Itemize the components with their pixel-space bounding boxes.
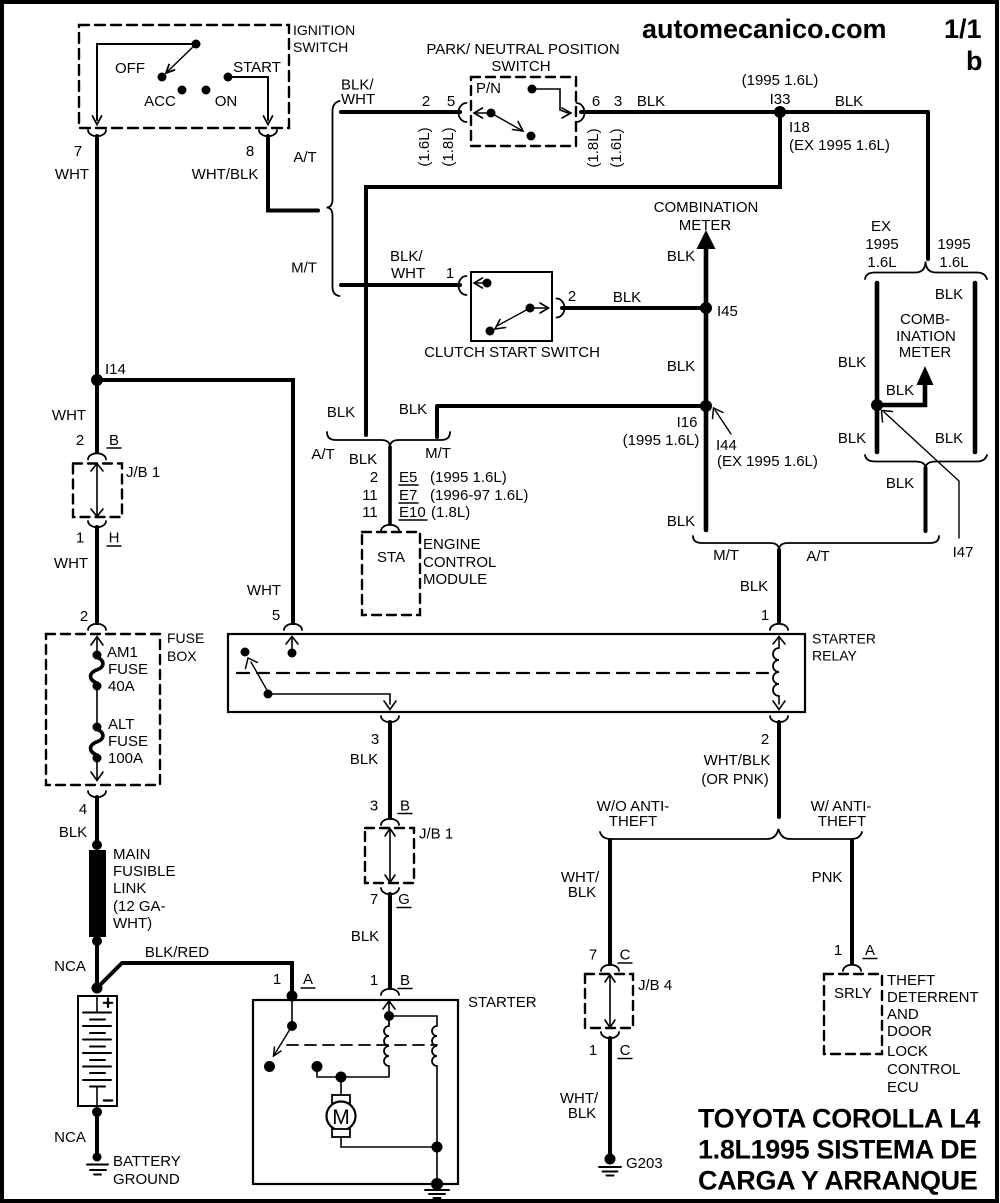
svg-text:WHT/BLK: WHT/BLK (192, 166, 259, 183)
svg-text:CONTROL: CONTROL (423, 554, 496, 571)
starter motor contact (312, 1061, 390, 1077)
svg-text:2: 2 (370, 469, 378, 486)
svg-text:BLK: BLK (568, 1105, 596, 1122)
svg-text:J/B 1: J/B 1 (419, 826, 453, 843)
combination meter arrow right (917, 366, 934, 385)
split brace anti-theft (600, 829, 862, 839)
node battery negative (92, 1107, 102, 1117)
svg-text:CARGA Y ARRANQUE: CARGA Y ARRANQUE (698, 1166, 977, 1196)
svg-text:BLK: BLK (886, 475, 914, 492)
svg-text:BLK: BLK (838, 354, 866, 371)
main fusible link (89, 840, 176, 946)
fuse AM1 40A (91, 644, 148, 695)
wire clutch to I45 (562, 306, 706, 310)
starter pinB internal arrow (383, 1001, 395, 1021)
connector pin 8 ignition (259, 130, 277, 136)
svg-text:BLK: BLK (886, 382, 914, 399)
svg-text:5: 5 (447, 93, 455, 110)
node I16 (623, 400, 712, 449)
starter box (253, 994, 537, 1184)
svg-text:WHT/BLK: WHT/BLK (704, 752, 771, 769)
svg-text:100A: 100A (108, 750, 143, 767)
svg-text:INATION: INATION (896, 328, 956, 345)
clutch switch arm (486, 304, 535, 336)
svg-text:1: 1 (589, 1042, 597, 1059)
ignition switch box (79, 22, 355, 128)
node I45 (700, 302, 738, 320)
svg-text:RELAY: RELAY (812, 648, 858, 664)
svg-text:WHT: WHT (341, 91, 375, 108)
svg-text:EX: EX (871, 218, 891, 235)
combination meter arrow center (697, 230, 716, 249)
svg-text:ENGINE: ENGINE (423, 536, 481, 553)
wire W/ anti-theft branch (850, 841, 854, 963)
svg-text:(1995 1.6L): (1995 1.6L) (430, 469, 507, 486)
svg-text:SWITCH: SWITCH (491, 58, 550, 75)
svg-text:1/1: 1/1 (944, 14, 982, 44)
svg-text:AND: AND (887, 1006, 919, 1023)
svg-text:ACC: ACC (144, 93, 176, 110)
junction block J/B 1 lower (365, 826, 453, 884)
svg-text:LOCK: LOCK (887, 1043, 928, 1060)
starter motor M (327, 1077, 356, 1147)
P/N internal pin6 contact and wire (528, 85, 572, 119)
svg-text:2: 2 (76, 432, 84, 449)
connector J/B1 lower entry (381, 819, 399, 825)
svg-text:DETERRENT: DETERRENT (887, 989, 979, 1006)
svg-text:(EX 1995 1.6L): (EX 1995 1.6L) (789, 137, 890, 154)
svg-text:BLK: BLK (59, 824, 87, 841)
svg-text:E10: E10 (399, 504, 426, 521)
wire fusible link to battery junction (95, 941, 99, 988)
svg-text:A: A (303, 971, 313, 988)
svg-text:ON: ON (215, 93, 238, 110)
ignition switch rotor arm (166, 44, 196, 73)
svg-text:3: 3 (614, 93, 622, 110)
svg-text:ECU: ECU (887, 1079, 919, 1096)
node I33 (742, 72, 819, 118)
svg-text:WHT: WHT (391, 265, 425, 282)
svg-text:PNK: PNK (812, 869, 843, 886)
svg-text:3: 3 (370, 798, 378, 815)
W/ ANTI-THEFT label (811, 798, 872, 830)
wire P/N to I33 and right column (581, 110, 928, 114)
svg-text:I44: I44 (716, 437, 737, 454)
svg-text:GROUND: GROUND (113, 1171, 180, 1188)
svg-text:(1995 1.6L): (1995 1.6L) (623, 432, 700, 449)
wire I14 branch to starter relay pin5 (97, 380, 293, 623)
ignition OFF contact (158, 73, 167, 82)
ignition START contact (224, 73, 233, 82)
svg-text:I47: I47 (953, 544, 974, 561)
ignition ON contact (202, 86, 211, 95)
combination meter label right (896, 311, 956, 361)
svg-text:I33: I33 (770, 91, 791, 108)
svg-text:CLUTCH START SWITCH: CLUTCH START SWITCH (424, 344, 600, 361)
svg-text:G203: G203 (626, 1155, 663, 1172)
wire I16 left and down to ECM brace (437, 406, 706, 437)
svg-text:BLK: BLK (667, 358, 695, 375)
theft deterrent ECU SRLY box (824, 972, 979, 1096)
svg-text:(1.6L): (1.6L) (608, 128, 625, 167)
svg-text:BLK: BLK (667, 513, 695, 530)
svg-text:I14: I14 (105, 361, 126, 378)
connector E10 label (399, 504, 470, 521)
wire ignition pin8 to split brace (268, 136, 318, 211)
svg-text:MODULE: MODULE (423, 571, 487, 588)
svg-text:2: 2 (761, 731, 769, 748)
ignition switch internal wire to pin 7 (93, 40, 201, 125)
terminal B label starter (398, 972, 412, 989)
starter solenoid pull-in coil (384, 1018, 389, 1066)
svg-text:WHT): WHT) (113, 915, 152, 932)
svg-text:CONTROL: CONTROL (887, 1061, 960, 1078)
svg-text:4: 4 (79, 801, 87, 818)
connector fuse box entry (88, 624, 106, 630)
connector relay pin1 (770, 624, 788, 630)
svg-text:7: 7 (370, 891, 378, 908)
svg-text:11: 11 (362, 504, 378, 521)
terminal B label J/B1 lower top (398, 798, 412, 815)
wire brace to STA (388, 447, 392, 524)
svg-text:2: 2 (568, 288, 576, 305)
wire I33 down and left to ECM branch (366, 112, 780, 435)
terminal B label J/B1 (107, 432, 121, 449)
wire relay pin3 to J/B1 (388, 722, 392, 818)
svg-text:11: 11 (362, 487, 378, 504)
wire between fuses (96, 686, 98, 725)
connector J/B4 exit (601, 1032, 619, 1038)
svg-text:3: 3 (371, 731, 379, 748)
svg-text:7: 7 (74, 143, 82, 160)
svg-text:OFF: OFF (115, 60, 145, 77)
svg-text:SRLY: SRLY (834, 985, 872, 1002)
svg-text:BLK: BLK (935, 286, 963, 303)
svg-text:(1996-97 1.6L): (1996-97 1.6L) (430, 487, 528, 504)
svg-text:BLK/RED: BLK/RED (145, 944, 209, 961)
svg-text:BLK: BLK (740, 578, 768, 595)
starter ground symbol (425, 1190, 449, 1198)
split brace comb meter top (865, 262, 987, 280)
relay coil (773, 637, 785, 710)
svg-text:STARTER: STARTER (812, 631, 876, 647)
clutch internal pin1 arrow and contact (474, 278, 492, 288)
svg-text:(12 GA-: (12 GA- (113, 898, 166, 915)
wire battery to ground (95, 1112, 99, 1152)
wire right column down to comb meter split (926, 112, 930, 259)
svg-text:COMBINATION: COMBINATION (654, 199, 759, 216)
svg-text:BLK: BLK (835, 93, 863, 110)
relay internal dashed line (237, 672, 768, 674)
svg-text:FUSIBLE: FUSIBLE (113, 863, 176, 880)
svg-text:H: H (109, 530, 120, 547)
svg-text:BLK: BLK (349, 451, 377, 468)
svg-text:1.8L1995 SISTEMA DE: 1.8L1995 SISTEMA DE (698, 1135, 977, 1165)
svg-text:2: 2 (80, 608, 88, 625)
svg-text:A/T: A/T (806, 548, 829, 565)
W/O ANTI-THEFT label (597, 798, 670, 830)
svg-text:C: C (620, 1042, 631, 1059)
svg-text:(OR PNK): (OR PNK) (701, 771, 769, 788)
svg-text:(EX 1995 1.6L): (EX 1995 1.6L) (717, 453, 818, 470)
terminal G label (397, 891, 411, 908)
svg-text:THEFT: THEFT (818, 813, 866, 830)
svg-text:ALT: ALT (108, 716, 134, 733)
svg-text:MAIN: MAIN (113, 846, 151, 863)
svg-text:BLK/: BLK/ (390, 248, 423, 265)
svg-text:A/T: A/T (311, 446, 334, 463)
wire relay pin2 down (777, 722, 781, 817)
svg-text:G: G (398, 891, 410, 908)
svg-text:1.6L: 1.6L (939, 254, 968, 271)
svg-text:(1.6L): (1.6L) (416, 127, 433, 166)
wire J/B1 to starter pinB (388, 894, 392, 988)
svg-text:AM1: AM1 (107, 644, 138, 661)
svg-text:b: b (966, 46, 983, 76)
ignition ACC contact (178, 86, 187, 95)
svg-text:1: 1 (370, 972, 378, 989)
merge brace relay pin1 (693, 536, 939, 550)
fuse box entry arrow (91, 637, 103, 652)
WHT/BLK label G203 (560, 1090, 599, 1122)
svg-text:M: M (332, 1106, 350, 1129)
junction block J/B 1 upper (73, 464, 160, 518)
connector relay pin3 (381, 716, 399, 722)
svg-text:B: B (109, 432, 119, 449)
svg-text:WHT: WHT (52, 407, 86, 424)
wire comb meter left branch (875, 283, 880, 452)
WHT/BLK label J/B4 (561, 869, 600, 901)
svg-text:40A: 40A (108, 678, 135, 695)
split brace A/T M/T ignition (327, 101, 340, 296)
node I44 callout (713, 408, 818, 470)
svg-text:6: 6 (592, 93, 600, 110)
svg-text:BLK: BLK (667, 248, 695, 265)
starter solenoid hold-in coil (432, 1026, 437, 1066)
ground G203 (599, 1154, 663, 1176)
svg-text:2: 2 (422, 93, 430, 110)
svg-text:THEFT: THEFT (887, 972, 935, 989)
svg-text:1: 1 (76, 530, 84, 547)
svg-text:J/B 4: J/B 4 (638, 977, 672, 994)
svg-text:(1.8L): (1.8L) (431, 504, 470, 521)
svg-text:STARTER: STARTER (468, 994, 537, 1011)
engine size labels P/N left (416, 127, 457, 166)
clutch start switch (424, 272, 600, 361)
connector J/B1 lower exit (381, 888, 399, 894)
svg-text:1995: 1995 (937, 236, 970, 253)
connector starter pinB (381, 989, 399, 995)
junction block J/B 4 (585, 974, 672, 1028)
node starter terminal A (287, 991, 298, 1002)
wire J/B4 to ground (608, 1038, 612, 1155)
connector J/B1 entry (88, 453, 106, 459)
terminal A label starter (301, 971, 315, 988)
terminal C label J/B4 bottom (618, 1042, 632, 1059)
svg-text:FUSE: FUSE (108, 733, 148, 750)
BLK/WHT label M/T wire (390, 248, 425, 282)
node I14 (91, 374, 103, 386)
svg-text:BATTERY: BATTERY (113, 1153, 181, 1170)
svg-text:BLK: BLK (350, 751, 378, 768)
starter internal wire pinB to right coil (389, 1016, 437, 1026)
merge brace comb meter bottom (865, 455, 987, 468)
fuse box (46, 630, 204, 785)
clutch internal pin2 arrow (534, 303, 549, 313)
park/neutral position switch (426, 41, 619, 146)
wire fuse box to fusible link (95, 797, 99, 845)
connector J/B4 entry (601, 965, 619, 971)
connector fuse box exit (88, 791, 106, 797)
node starter case ground (431, 1178, 443, 1190)
starter internal ground wire (341, 1066, 437, 1184)
terminal C label J/B4 top (618, 947, 632, 964)
connector STA entry (381, 525, 399, 531)
connector relay pin5 (284, 624, 302, 630)
svg-text:1: 1 (273, 971, 281, 988)
wire to comb meter arrow right (877, 385, 925, 405)
svg-text:BOX: BOX (167, 648, 197, 664)
relay switch arm (246, 658, 273, 699)
node I18 label (789, 119, 890, 154)
svg-text:WHT: WHT (55, 166, 89, 183)
svg-text:BLK: BLK (399, 401, 427, 418)
svg-text:1: 1 (446, 265, 454, 282)
svg-text:LINK: LINK (113, 880, 146, 897)
svg-text:(1.8L): (1.8L) (585, 128, 602, 167)
svg-text:I16: I16 (677, 414, 698, 431)
svg-text:SWITCH: SWITCH (293, 39, 348, 55)
connector pin 7 ignition (88, 130, 106, 136)
svg-text:FUSE: FUSE (167, 630, 204, 646)
wire BLK/RED to starter terminal A (97, 963, 292, 996)
svg-text:P/N: P/N (476, 80, 501, 97)
connector E5 label (399, 469, 507, 486)
wire A/T to P/N switch (341, 110, 460, 114)
svg-text:M/T: M/T (291, 260, 317, 277)
svg-text:BLK: BLK (838, 430, 866, 447)
engine size labels P/N right (585, 128, 625, 167)
svg-text:TOYOTA COROLLA L4: TOYOTA COROLLA L4 (698, 1104, 980, 1134)
combination meter label center (654, 199, 759, 234)
svg-text:METER: METER (899, 344, 952, 361)
wire pin7 down to I14 (95, 136, 99, 380)
ignition position labels (115, 59, 281, 110)
starter relay box (228, 631, 876, 713)
svg-text:1: 1 (834, 942, 842, 959)
svg-text:8: 8 (246, 143, 254, 160)
svg-text:B: B (400, 798, 410, 815)
terminal A label SRLY (863, 942, 877, 959)
svg-text:(1.8L): (1.8L) (440, 127, 457, 166)
svg-text:STA: STA (377, 549, 405, 566)
svg-text:METER: METER (679, 217, 732, 234)
P/N internal pin5 arrow and contact (474, 108, 496, 118)
svg-text:DOOR: DOOR (887, 1023, 932, 1040)
EX 1995 1.6L label (865, 218, 898, 271)
svg-text:E7: E7 (399, 487, 417, 504)
svg-text:5: 5 (272, 607, 280, 624)
terminal H label (107, 530, 121, 547)
svg-text:THEFT: THEFT (609, 813, 657, 830)
svg-text:C: C (620, 947, 631, 964)
svg-text:BLK: BLK (637, 93, 665, 110)
BLK/WHT label A/T wire (341, 77, 375, 109)
svg-text:BLK: BLK (935, 430, 963, 447)
svg-text:A/T: A/T (293, 149, 316, 166)
svg-text:FUSE: FUSE (108, 661, 148, 678)
starter internal dashed line (287, 1044, 437, 1046)
wire M/T to clutch switch (341, 283, 460, 287)
fuse box exit arrow (91, 758, 103, 781)
svg-text:J/B 1: J/B 1 (126, 464, 160, 481)
svg-text:A: A (865, 942, 875, 959)
connector clutch left (459, 276, 467, 295)
wire center BLK vertical (704, 249, 709, 530)
connector P/N right (577, 103, 585, 122)
wire J/B1 to fuse box (95, 527, 99, 623)
svg-text:BLK: BLK (568, 884, 596, 901)
svg-text:COMB-: COMB- (900, 311, 950, 328)
svg-text:E5: E5 (399, 469, 417, 486)
connector E7 label (399, 487, 528, 504)
connector P/N left (459, 103, 467, 122)
battery ground symbol (87, 1153, 181, 1189)
connector relay pin2 (770, 716, 788, 722)
svg-text:1995: 1995 (865, 236, 898, 253)
svg-text:B: B (400, 972, 410, 989)
svg-text:START: START (233, 59, 281, 76)
svg-text:BLK: BLK (327, 404, 355, 421)
connector SRLY entry (843, 965, 861, 971)
connector J/B1 exit (88, 521, 106, 527)
svg-text:PARK/ NEUTRAL POSITION: PARK/ NEUTRAL POSITION (426, 41, 619, 58)
svg-text:(1995 1.6L): (1995 1.6L) (742, 72, 819, 89)
svg-text:M/T: M/T (425, 445, 451, 462)
relay internal wire to pin3 (268, 694, 396, 710)
wire W/O anti-theft branch (608, 841, 612, 964)
svg-text:NCA: NCA (54, 958, 86, 975)
svg-text:automecanico.com: automecanico.com (642, 14, 887, 44)
wire I14 down to J/B1 (95, 380, 99, 452)
svg-text:7: 7 (589, 947, 597, 964)
node starter ground junction (432, 1142, 443, 1153)
connector clutch right (557, 299, 565, 318)
relay fixed contact (241, 648, 250, 657)
P/N switch arm (491, 113, 536, 141)
svg-text:I18: I18 (789, 119, 810, 136)
starter internal switch (264, 1000, 297, 1072)
svg-text:WHT: WHT (54, 555, 88, 572)
node starter motor junction (336, 1072, 347, 1083)
svg-text:1: 1 (761, 607, 769, 624)
wire comb meter right branch (973, 283, 978, 452)
fuse ALT 100A (91, 716, 148, 767)
svg-text:NCA: NCA (54, 1129, 86, 1146)
wire merge to relay pin1 (777, 550, 781, 622)
relay pin5 internal arrow (286, 637, 298, 658)
svg-text:WHT: WHT (247, 582, 281, 599)
ignition switch internal wire to pin 8 (232, 77, 273, 125)
svg-text:BLK: BLK (613, 289, 641, 306)
svg-text:1.6L: 1.6L (867, 254, 896, 271)
1995 1.6L label (937, 236, 970, 271)
svg-text:IGNITION: IGNITION (293, 22, 355, 38)
wire comb meter to big merge (924, 468, 928, 531)
engine control module STA box (362, 532, 496, 615)
node battery positive junction (92, 983, 103, 994)
node comb meter junction (871, 399, 883, 411)
